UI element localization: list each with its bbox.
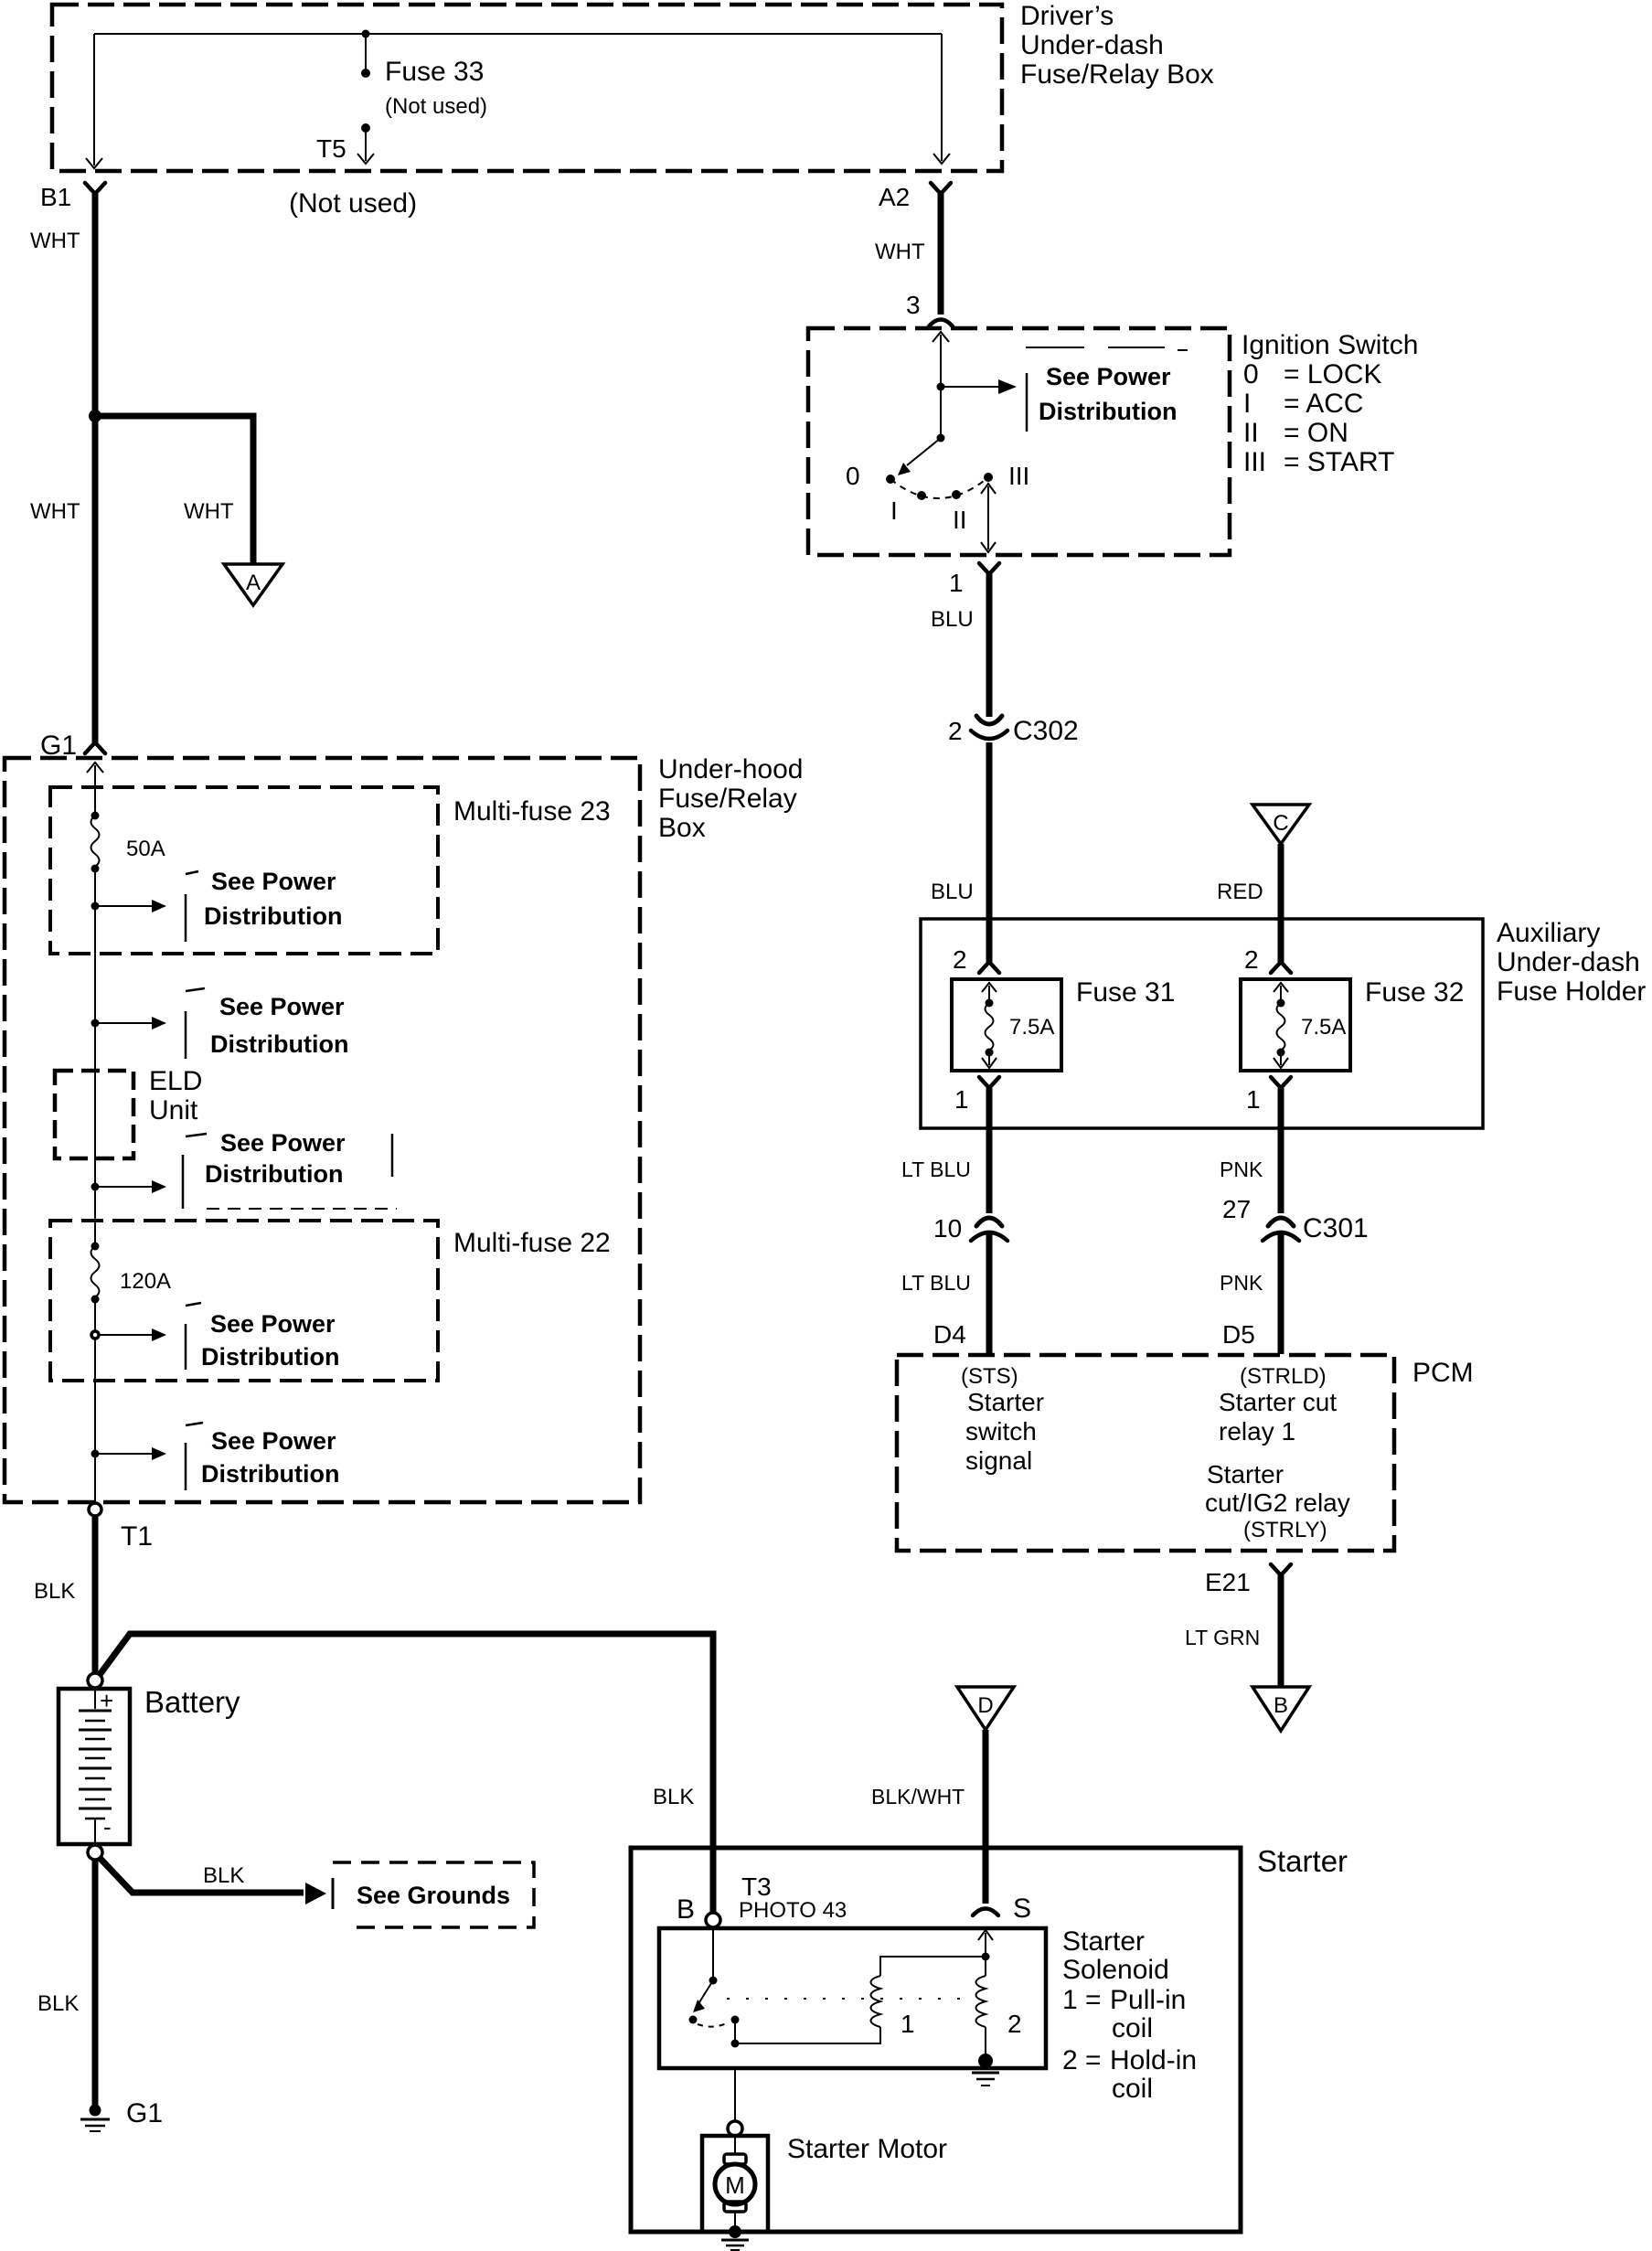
reference bar: See Power Distribution (block 2): [186, 988, 205, 1059]
fuse Fuse 31 7.5A: [952, 979, 1061, 1071]
connector C301 pin 10: [971, 1218, 1007, 1241]
value label: Fuse 33: [385, 57, 487, 119]
reference bar: See Power Distribution (block 5): [186, 1423, 203, 1490]
label: See Power Distribution (block 4): [201, 1310, 339, 1371]
svg-text:Distribution: Distribution: [205, 1160, 343, 1188]
svg-text:2: 2: [953, 945, 967, 974]
node: battery positive junction ring: [88, 1673, 102, 1688]
svg-text:WHT: WHT: [30, 229, 80, 253]
position label 0: [846, 462, 860, 490]
position label I: [890, 496, 898, 525]
terminal: T1 ring terminal: [89, 1503, 101, 1516]
wire: WHT branch to connector A: [95, 416, 253, 564]
svg-text:10: 10: [933, 1214, 962, 1243]
fuse element 50A (multi-fuse 23): [91, 812, 100, 873]
svg-text:III: III: [1243, 447, 1266, 477]
wire: drop to A2 with arrow: [933, 34, 950, 164]
label: See Power Distribution (block 5): [201, 1427, 339, 1488]
wire label LT GRN: [1185, 1626, 1260, 1649]
wire label WHT (B1 upper): [30, 229, 80, 253]
svg-text:-: -: [103, 1813, 112, 1840]
pin label 2 (fuse 31): [953, 945, 967, 974]
svg-text:Under-dash: Under-dash: [1020, 30, 1164, 60]
svg-text:I: I: [890, 496, 898, 525]
reference bar: See Power Distribution (block 1): [186, 871, 198, 942]
label PHOTO 43: [739, 1898, 847, 1923]
wire label RED: [1217, 880, 1263, 904]
svg-text:PNK: PNK: [1220, 1158, 1263, 1181]
label: Starter: [1257, 1844, 1348, 1878]
pin label D5: [1222, 1320, 1255, 1349]
connector C (off-page triangle): [1252, 805, 1309, 844]
svg-text:(STRLD): (STRLD): [1240, 1364, 1327, 1389]
connector A (off-page triangle): [224, 564, 282, 605]
decorative contact shelf lines inside ignition switch: [1026, 347, 1188, 350]
wire: drop to B1 with arrow: [86, 34, 102, 168]
svg-text:relay 1: relay 1: [1219, 1417, 1295, 1446]
svg-text:T1: T1: [121, 1521, 153, 1552]
svg-text:See Power: See Power: [219, 993, 345, 1020]
pin label G1 (top): [40, 731, 77, 761]
svg-text:Starter: Starter: [1257, 1844, 1348, 1878]
svg-text:Under-dash: Under-dash: [1497, 947, 1640, 977]
label: Battery: [144, 1685, 240, 1719]
ground: starter motor ground: [721, 2225, 749, 2250]
svg-text:+: +: [100, 1687, 113, 1714]
svg-text:B: B: [677, 1894, 695, 1925]
inductor: pull-in coil 1: [871, 1957, 986, 2027]
node: rotor pivot: [937, 434, 945, 443]
reference bar: See Power Distribution (block 3): [183, 1134, 397, 1209]
wire: BLK from T1 to battery positive: [92, 1516, 99, 1673]
inductor: hold-in coil 2: [976, 1957, 986, 2055]
svg-text:1: 1: [949, 569, 964, 597]
wire: entry arrow inside ignition switch: [933, 332, 949, 387]
wire label BLK (T1-battery): [34, 1579, 75, 1604]
svg-text:S: S: [1013, 1894, 1031, 1924]
svg-text:Starter: Starter: [1207, 1460, 1284, 1488]
svg-text:BLK: BLK: [34, 1579, 75, 1604]
svg-text:LT BLU: LT BLU: [901, 1271, 971, 1295]
label: See Power Distribution (block 1): [204, 868, 342, 930]
dashed mechanical linkage: [727, 1998, 969, 2000]
switch blade toward position 0: [898, 438, 941, 475]
contact I: [917, 491, 926, 500]
svg-text:2: 2: [948, 717, 963, 745]
svg-text:ELD: ELD: [149, 1066, 202, 1096]
svg-text:WHT: WHT: [184, 499, 234, 524]
wire: LT GRN from PCM E21 to connector B: [1278, 1575, 1284, 1686]
label: Ignition Switch legend: [1242, 330, 1418, 477]
svg-text:Fuse/Relay Box: Fuse/Relay Box: [1020, 59, 1214, 90]
label: See Power Distribution (block 3): [205, 1129, 346, 1188]
box: See Grounds dashed reference: [333, 1862, 534, 1927]
box: Starter Solenoid: [659, 1928, 1046, 2068]
wire: BLK from battery negative to G1 ground: [92, 1860, 99, 2107]
svg-text:(Not used): (Not used): [385, 94, 487, 119]
svg-text:Auxiliary: Auxiliary: [1497, 918, 1600, 948]
svg-text:PHOTO 43: PHOTO 43: [739, 1898, 847, 1923]
wire: S entry arrow: [978, 1930, 993, 1957]
box: Multi-fuse 22: [50, 1221, 438, 1381]
terminal: A2 female connector: [931, 183, 951, 194]
svg-text:T3: T3: [741, 1872, 772, 1901]
wire: BLU from C302 to fuse 31: [986, 742, 993, 962]
svg-text:Distribution: Distribution: [210, 1030, 348, 1058]
svg-text:See Power: See Power: [211, 1427, 336, 1455]
position label II: [953, 506, 967, 534]
svg-text:0: 0: [846, 462, 860, 490]
fuse Fuse 33 (not used): [361, 34, 370, 133]
contact III: [984, 473, 993, 482]
dashed contact link: [698, 2022, 729, 2027]
reference bar: See Power Distribution (ignition): [1026, 373, 1029, 432]
wire: START output from III with arrows: [981, 484, 996, 552]
terminal: PCM pin E21 female connector: [1271, 1564, 1291, 1575]
node: battery negative junction ring: [88, 1845, 102, 1860]
box: Under-hood Fuse/Relay Box: [5, 758, 640, 1502]
svg-text:1: 1: [901, 2010, 915, 2038]
wire label BLK (to starter B): [653, 1785, 694, 1809]
svg-text:(STS): (STS): [961, 1364, 1018, 1389]
svg-text:Ignition Switch: Ignition Switch: [1242, 330, 1418, 360]
wire: solenoid output to starter motor: [734, 2068, 736, 2120]
wire label BLK (grounds branch): [203, 1863, 244, 1888]
wire: battery positive feed to starter B: [99, 1634, 713, 1913]
box: Driver's Under-dash Fuse/Relay Box: [52, 5, 1002, 171]
terminal: fuse 32 pin 2 female connector: [1271, 962, 1291, 973]
reference bar: See Power Distribution (block 4): [186, 1303, 201, 1370]
label: (Not used) below T5: [289, 188, 417, 219]
svg-text:Box: Box: [658, 813, 706, 843]
pin label T1: [121, 1521, 153, 1552]
svg-text:(STRLY): (STRLY): [1243, 1518, 1327, 1542]
terminal: starter S male connector: [973, 1909, 998, 1916]
pin label 3: [906, 291, 921, 319]
svg-text:PCM: PCM: [1412, 1358, 1474, 1388]
label T3: [741, 1872, 772, 1901]
svg-text:Distribution: Distribution: [204, 902, 342, 930]
svg-text:Distribution: Distribution: [201, 1460, 339, 1488]
svg-text:7.5A: 7.5A: [1009, 1015, 1054, 1040]
wire: WHT from B1 down to G1: [92, 194, 99, 743]
terminal: ignition switch pin 3 male connector: [929, 320, 953, 327]
connector B (off-page triangle): [1252, 1687, 1309, 1731]
connector C301 pin 27: [1263, 1218, 1299, 1241]
label: ELD Unit: [149, 1066, 202, 1125]
wire label BLK/WHT: [871, 1785, 965, 1808]
label: Multi-fuse 22: [453, 1228, 611, 1258]
wire label BLU (lower): [931, 880, 974, 904]
svg-text:LT BLU: LT BLU: [901, 1158, 971, 1181]
wire label PNK (above C301): [1220, 1158, 1263, 1181]
svg-text:Multi-fuse 22: Multi-fuse 22: [453, 1228, 611, 1258]
wire label BLU (upper): [931, 607, 974, 632]
wire: rotor feed: [940, 387, 942, 438]
pin label 1 (fuse 32): [1246, 1085, 1261, 1114]
svg-text:See Grounds: See Grounds: [357, 1882, 510, 1909]
node: solenoid output post: [731, 2016, 740, 2048]
svg-text:(Not used): (Not used): [289, 188, 417, 219]
label: Auxiliary Under-dash Fuse Holder: [1497, 918, 1646, 1007]
svg-text:BLU: BLU: [931, 607, 974, 632]
svg-text:Fuse 31: Fuse 31: [1076, 977, 1175, 1008]
pin label A2: [879, 183, 910, 211]
coil label 1: [901, 2010, 915, 2038]
dashed rotation arc through I and II: [890, 477, 988, 498]
svg-text:Starter cut: Starter cut: [1219, 1388, 1337, 1416]
terminal: fuse 32 pin 1 female connector: [1271, 1077, 1291, 1088]
svg-text:1: 1: [1246, 1085, 1261, 1114]
svg-text:E21: E21: [1205, 1568, 1251, 1596]
terminal: fuse 31 pin 2 female connector: [979, 962, 999, 973]
svg-text:Starter: Starter: [967, 1388, 1044, 1416]
wire: RED from connector C to fuse 32: [1278, 844, 1284, 962]
label: Fuse 31: [1076, 977, 1175, 1008]
label: Starter Motor: [787, 2134, 947, 2164]
svg-text:BLK: BLK: [37, 1991, 79, 2016]
svg-text:cut/IG2 relay: cut/IG2 relay: [1205, 1488, 1350, 1517]
svg-text:BLK: BLK: [203, 1863, 244, 1888]
pin label S: [1013, 1894, 1031, 1924]
svg-text:I: I: [1243, 389, 1251, 419]
pin label 10: [933, 1214, 962, 1243]
pin label 2 (fuse 32): [1244, 945, 1259, 974]
wire: LT BLU from fuse 31: [986, 1088, 993, 1213]
wire: LT BLU from C301 to PCM D4: [986, 1232, 993, 1354]
ground label G1 (bottom): [126, 2098, 163, 2128]
svg-text:Driver’s: Driver’s: [1020, 1, 1114, 31]
svg-text:Solenoid: Solenoid: [1062, 1955, 1169, 1985]
wire: multi-fuse 22 feed down to T1: [94, 1299, 96, 1504]
svg-text:M: M: [725, 2171, 745, 2199]
svg-text:WHT: WHT: [875, 240, 925, 264]
svg-text:coil: coil: [1112, 2013, 1153, 2043]
motor M1: [715, 2136, 755, 2227]
pin label 1: [949, 569, 964, 597]
svg-text:See Power: See Power: [210, 1310, 336, 1338]
label: Driver's Under-dash Fuse/Relay Box: [1020, 1, 1214, 90]
position label III: [1008, 462, 1029, 490]
pin label D4: [933, 1320, 966, 1349]
svg-text:Under-hood: Under-hood: [658, 754, 803, 784]
svg-text:D: D: [977, 1693, 993, 1718]
svg-text:1: 1: [954, 1085, 969, 1114]
fuse element 120A (multi-fuse 22): [91, 1243, 100, 1304]
fuse Fuse 32 7.5A: [1241, 979, 1350, 1071]
svg-text:0: 0: [1243, 359, 1259, 389]
svg-text:See Power: See Power: [211, 868, 336, 895]
svg-text:G1: G1: [126, 2098, 163, 2128]
box: Ignition Switch: [808, 328, 1230, 555]
svg-text:A: A: [246, 571, 261, 595]
svg-text:D4: D4: [933, 1320, 966, 1349]
svg-text:Fuse 32: Fuse 32: [1365, 977, 1464, 1008]
label: See Power Distribution (ignition): [1039, 363, 1177, 425]
wire: PNK from C301 to PCM D5: [1278, 1232, 1284, 1354]
terminal: B1 female connector: [85, 183, 105, 194]
box: PCM: [897, 1355, 1394, 1551]
label: Fuse 32: [1365, 977, 1464, 1008]
wire: PNK from fuse 32: [1278, 1088, 1284, 1213]
wire: multi-fuse 23 internal feed down: [94, 869, 96, 1246]
svg-text:= START: = START: [1284, 447, 1394, 477]
svg-text:2: 2: [1007, 2010, 1022, 2038]
label: (STRLD) Starter cut relay 1: [1219, 1364, 1337, 1446]
svg-text:D5: D5: [1222, 1320, 1255, 1349]
wire: internal bus in driver's box: [94, 33, 942, 35]
svg-text:Starter: Starter: [1062, 1926, 1145, 1957]
wire: arrow to See Power Distribution: [941, 379, 1017, 394]
node: fuse 33 tap junction: [362, 30, 370, 38]
svg-text:27: 27: [1222, 1195, 1251, 1223]
svg-text:B1: B1: [40, 183, 71, 211]
polarity label -: [103, 1813, 112, 1840]
value label 7.5A (fuse 31): [1009, 1015, 1054, 1040]
svg-text:See Power: See Power: [220, 1129, 346, 1157]
pin label 27: [1222, 1195, 1251, 1223]
value label 50A: [126, 837, 165, 861]
label: Multi-fuse 23: [453, 796, 611, 827]
wire: T5 stub with arrow (not used): [357, 128, 374, 164]
pin label T5: [316, 134, 346, 163]
box: ELD Unit: [55, 1071, 133, 1158]
terminal: starter motor post ring: [728, 2121, 742, 2136]
svg-text:WHT: WHT: [30, 499, 80, 524]
svg-text:B: B: [1274, 1693, 1288, 1718]
svg-text:Starter Motor: Starter Motor: [787, 2134, 947, 2164]
svg-text:3: 3: [906, 291, 921, 319]
svg-text:7.5A: 7.5A: [1301, 1015, 1346, 1040]
svg-text:= ACC: = ACC: [1284, 389, 1364, 419]
svg-text:Distribution: Distribution: [201, 1343, 339, 1371]
contact II: [952, 490, 961, 499]
svg-text:T5: T5: [316, 134, 346, 163]
node: junction on WHT wire: [89, 410, 101, 422]
box: Starter Motor: [702, 2136, 768, 2232]
pin label B1: [40, 183, 71, 211]
ground G1: [80, 2105, 110, 2132]
pin label B: [677, 1894, 695, 1925]
svg-text:II: II: [1243, 418, 1259, 448]
connector C302 pin 2: [971, 716, 1007, 739]
svg-text:See Power: See Power: [1046, 363, 1171, 390]
polarity label +: [100, 1687, 113, 1714]
svg-text:BLK: BLK: [653, 1785, 694, 1809]
label: Under-hood Fuse/Relay Box: [658, 754, 803, 843]
terminal: G1 female connector: [85, 742, 105, 753]
svg-text:G1: G1: [40, 731, 77, 761]
svg-text:PNK: PNK: [1220, 1271, 1263, 1295]
wire: BLU from ignition pin 1: [986, 574, 993, 717]
coil label 2: [1007, 2010, 1022, 2038]
pin label 1 (fuse 31): [954, 1085, 969, 1114]
svg-text:50A: 50A: [126, 837, 165, 861]
wire: pull-in coil bottom link: [735, 2027, 880, 2043]
wire: BLK/WHT from connector D to starter S: [983, 1730, 989, 1904]
connector label C302: [1013, 716, 1079, 746]
svg-text:C301: C301: [1303, 1213, 1369, 1243]
label: See Power Distribution (block 2): [210, 993, 348, 1058]
svg-text:= ON: = ON: [1284, 418, 1348, 448]
svg-text:A2: A2: [879, 183, 910, 211]
box: Starter: [631, 1848, 1241, 2232]
svg-text:RED: RED: [1217, 880, 1263, 904]
node: ignition feed junction: [937, 383, 945, 391]
node + arrow: branch 4 to See Power Distribution: [91, 1328, 166, 1341]
node + arrow: branch 2 to See Power Distribution: [91, 1017, 167, 1029]
svg-text:Fuse/Relay: Fuse/Relay: [658, 784, 797, 814]
wire label PNK (below C301): [1220, 1271, 1263, 1295]
svg-text:switch: switch: [965, 1417, 1037, 1446]
node + arrow: branch 1 to See Power Distribution: [91, 900, 167, 912]
label: See Grounds: [357, 1882, 510, 1909]
svg-text:Multi-fuse 23: Multi-fuse 23: [453, 796, 611, 827]
svg-text:C: C: [1273, 811, 1288, 836]
switch blade (solenoid contact): [689, 1980, 714, 2024]
wire: from B to solenoid contact: [709, 1927, 718, 1985]
svg-text:120A: 120A: [120, 1269, 171, 1294]
reference bar: See Grounds: [332, 1878, 335, 1909]
box: Auxiliary Under-dash Fuse Holder: [921, 919, 1483, 1128]
svg-text:Unit: Unit: [149, 1095, 198, 1125]
svg-text:2: 2: [1244, 945, 1259, 974]
value label 7.5A (fuse 32): [1301, 1015, 1346, 1040]
contact 0: [886, 475, 895, 484]
wire label WHT (A2): [875, 240, 925, 264]
wire: entry arrow below G1: [87, 763, 103, 816]
svg-text:Pull-in: Pull-in: [1110, 1985, 1186, 2015]
label: Starter cut/IG2 relay (STRLY): [1205, 1460, 1350, 1542]
wire label LT BLU (above C301): [901, 1158, 971, 1181]
connector D (off-page triangle): [957, 1687, 1014, 1730]
svg-text:BLU: BLU: [931, 880, 974, 904]
node + arrow: branch 5 to See Power Distribution: [91, 1447, 167, 1460]
svg-text:signal: signal: [965, 1446, 1032, 1475]
svg-text:BLK/WHT: BLK/WHT: [871, 1785, 965, 1808]
label: (STS) Starter switch signal: [961, 1364, 1044, 1475]
wire: WHT from A2 to ignition switch pin 3: [938, 194, 944, 315]
value label 120A: [120, 1269, 171, 1294]
node + arrow: branch 3 to See Power Distribution: [91, 1180, 167, 1193]
connector label C301: [1303, 1213, 1369, 1243]
svg-text:Fuse 33: Fuse 33: [385, 57, 484, 87]
svg-text:III: III: [1008, 462, 1029, 490]
svg-text:1 =: 1 =: [1062, 1985, 1102, 2015]
pin label E21: [1205, 1568, 1251, 1596]
svg-text:Battery: Battery: [144, 1685, 240, 1719]
svg-text:Fuse Holder: Fuse Holder: [1497, 976, 1646, 1007]
battery BAT1: [59, 1689, 130, 1844]
node: coil junction: [982, 1953, 990, 1961]
wire label WHT (branch): [184, 499, 234, 524]
svg-text:II: II: [953, 506, 967, 534]
svg-text:2 =: 2 =: [1062, 2045, 1102, 2075]
svg-text:= LOCK: = LOCK: [1284, 359, 1382, 389]
terminal: starter B ring terminal: [706, 1913, 720, 1927]
svg-text:LT GRN: LT GRN: [1185, 1626, 1260, 1649]
box: Multi-fuse 23: [50, 787, 438, 954]
wire label BLK (to G1): [37, 1991, 79, 2016]
wire label WHT (main lower): [30, 499, 80, 524]
wire: BLK branch to See Grounds: [99, 1857, 326, 1904]
svg-text:C302: C302: [1013, 716, 1079, 746]
terminal: ignition pin 1 female connector: [979, 563, 999, 574]
label: Starter Solenoid legend: [1062, 1926, 1197, 2104]
label: PCM: [1412, 1358, 1474, 1388]
pin label 2 (C302): [948, 717, 963, 745]
terminal: fuse 31 pin 1 female connector: [979, 1077, 999, 1088]
